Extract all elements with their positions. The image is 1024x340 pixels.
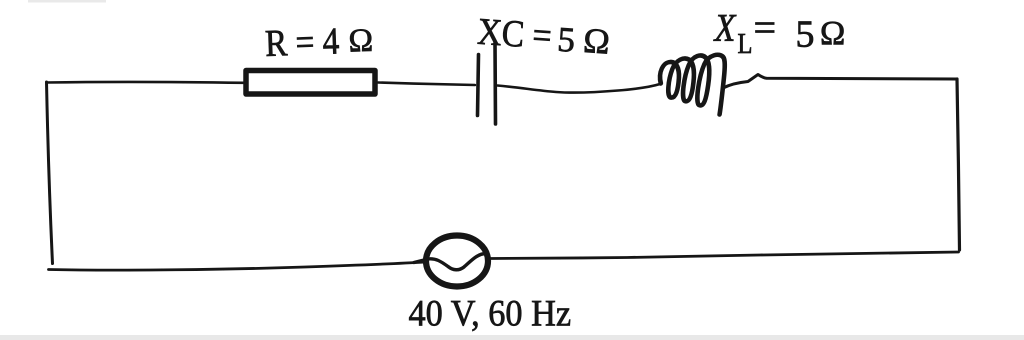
svg-text:=: = bbox=[754, 5, 777, 50]
svg-text:Ω: Ω bbox=[820, 15, 845, 52]
svg-text:Ω: Ω bbox=[582, 20, 611, 62]
svg-text:5: 5 bbox=[796, 14, 815, 56]
svg-text:5: 5 bbox=[556, 20, 576, 60]
svg-text:XC =: XC = bbox=[476, 10, 553, 57]
svg-text:X: X bbox=[713, 5, 737, 49]
svg-text:Ω: Ω bbox=[348, 23, 374, 60]
svg-text:40 V, 60 Hz: 40 V, 60 Hz bbox=[409, 292, 572, 334]
svg-text:L: L bbox=[738, 29, 753, 60]
svg-text:R = 4: R = 4 bbox=[264, 19, 340, 64]
